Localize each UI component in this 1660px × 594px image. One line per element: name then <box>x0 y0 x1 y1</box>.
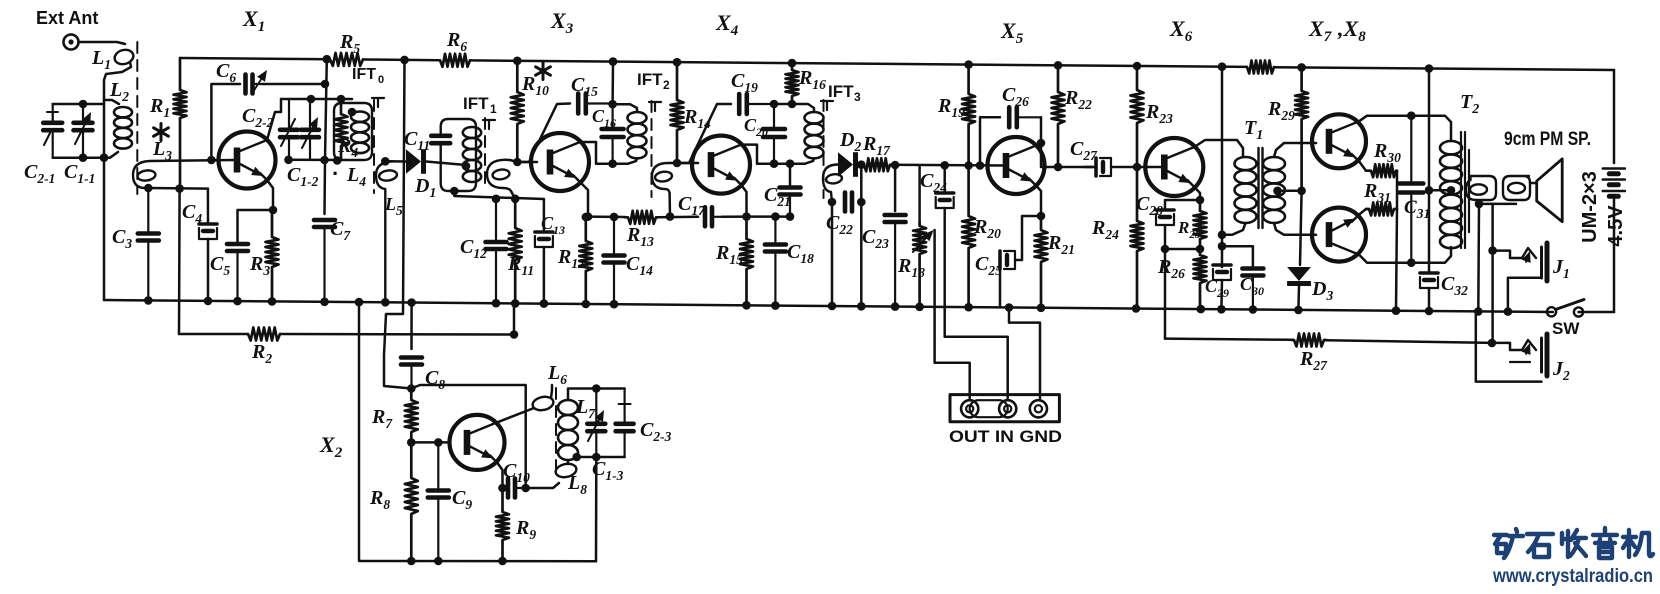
wire top rail segment R6 to R28 <box>470 60 1247 67</box>
junction C19 C20 <box>770 100 779 109</box>
transistor X2 (oscillator) <box>450 415 505 470</box>
wire C19 out to IFT3 primary top <box>774 103 793 106</box>
svg-text:R4: R4 <box>337 135 358 160</box>
wire rail feed through tank bottom to C7 <box>325 59 327 214</box>
svg-text:L4: L4 <box>346 164 366 189</box>
junction R8 at X2 bottom wire <box>407 557 416 566</box>
junction C32 at ground rail <box>1425 307 1434 316</box>
wire L2 top arc <box>104 100 119 104</box>
T2 core lines <box>1461 132 1469 248</box>
svg-text:C15: C15 <box>571 74 598 99</box>
junction X3 base node <box>513 158 522 167</box>
dashed core line IFT3 <box>823 100 825 198</box>
wire C31 bottom to T2 primary bottom <box>1411 247 1451 263</box>
svg-text:C17: C17 <box>678 193 706 218</box>
resistor R23 <box>1131 66 1144 167</box>
junction C6 tap on X1 base wire <box>207 156 216 165</box>
inductor L1 loop <box>113 48 135 66</box>
wire C31 top to T2 primary top <box>1411 116 1451 141</box>
junction C8 R7 node <box>407 384 416 393</box>
wire C6 to B- feed line <box>262 83 325 86</box>
junction X6 emitter node <box>1196 196 1205 205</box>
wire D3 to ground rail <box>1297 286 1300 310</box>
capacitor C22 <box>845 193 852 212</box>
svg-text:D2: D2 <box>839 129 861 154</box>
junction X4 emitter node <box>742 212 751 221</box>
trimmer slash C2-2 <box>281 119 295 146</box>
junction C21 bottom at emitter wire <box>786 212 795 221</box>
wire C30 branch <box>1222 246 1253 267</box>
svg-text:Ext Ant: Ext Ant <box>36 8 98 28</box>
svg-text:R16: R16 <box>798 67 826 92</box>
junction IFT1 primary tap <box>462 162 471 171</box>
wire IFT1 secondary to X3 base <box>505 160 537 162</box>
svg-text:R1: R1 <box>149 95 170 120</box>
dashed core line X2 oscillator transformer <box>555 388 557 471</box>
junction R24 ground <box>1132 304 1141 313</box>
junction L7 tank bottom left <box>572 453 581 462</box>
wire voice coil tap down to J1 and J2 <box>1491 204 1494 343</box>
resistor R19 <box>962 65 975 166</box>
wire X4 collector elbow <box>741 145 790 164</box>
wire C10 node to L8 <box>526 483 559 488</box>
svg-text:X4: X4 <box>715 10 739 39</box>
wire D2 output down to ground rail <box>860 165 863 307</box>
wire battery positive from top rail <box>1613 70 1616 163</box>
junction C31 top <box>1407 111 1416 120</box>
pin GND <box>1030 400 1047 417</box>
svg-text:C20: C20 <box>744 115 768 139</box>
resistor R4 <box>335 103 348 160</box>
svg-text:C32: C32 <box>1441 273 1468 298</box>
arrow of C1-2 <box>302 127 313 148</box>
svg-text:R8: R8 <box>369 487 390 512</box>
junction R17 output <box>891 161 900 170</box>
pin IN <box>999 400 1016 417</box>
svg-text:C1-2: C1-2 <box>287 164 319 189</box>
svg-text:J1: J1 <box>1552 256 1570 281</box>
wire C27 left lead <box>1085 166 1096 169</box>
junction R12 ground <box>582 300 591 309</box>
junction tank top at right vertical <box>592 384 601 393</box>
junction C22 right <box>857 198 866 207</box>
IFT3 primary coil <box>805 112 824 158</box>
IFT1 secondary loop staple <box>487 160 512 192</box>
svg-text:C2-2: C2-2 <box>242 105 274 130</box>
wire IFT2 primary bottom to collector node <box>613 158 637 163</box>
wire emitter node to C25 <box>1015 216 1041 260</box>
svg-text:C23: C23 <box>862 226 889 251</box>
wire X3 collector elbow <box>580 142 613 164</box>
junction C4 ground <box>204 297 213 306</box>
junction C22 ground <box>828 302 837 311</box>
oscillator coil L7 <box>558 400 578 460</box>
trimmer capacitor C2-3 <box>616 389 634 458</box>
capacitor C20 <box>763 104 785 164</box>
svg-text:OUT IN GND: OUT IN GND <box>949 427 1062 446</box>
transistor X6 (driver) <box>1145 138 1203 196</box>
wire J2 top contact <box>1492 343 1522 350</box>
junction R2 to ground drop <box>510 330 519 339</box>
capacitor C5 <box>227 244 248 301</box>
junction at ground rail <box>857 302 866 311</box>
coupling loop L5 staple <box>376 161 393 302</box>
T1 primary coil <box>1235 157 1257 223</box>
wire R27 line <box>1165 339 1292 340</box>
junction C7 feed <box>320 156 329 165</box>
capacitor C6 wire from base <box>211 84 240 160</box>
electrolytic capacitor C24 <box>936 193 954 208</box>
junction L5 ground <box>381 298 390 307</box>
svg-text:R10: R10 <box>521 73 549 98</box>
svg-text:C26: C26 <box>1002 84 1029 109</box>
svg-text:R20: R20 <box>973 216 1001 241</box>
resistor R26 <box>1194 249 1207 309</box>
wire R27 line right segment to J2 <box>1326 340 1492 343</box>
junction C9 at X2 bottom wire <box>434 557 443 566</box>
junction C5 ground <box>233 297 242 306</box>
junction tap wire at feed <box>1425 186 1434 195</box>
wire X7 collector to T2 primary top <box>1359 116 1411 122</box>
junction IFT2 secondary at emitter wire <box>666 212 675 221</box>
trimmer mark C2-3 <box>619 403 631 405</box>
wire T2 secondary return to ground rail <box>1477 204 1480 312</box>
junction R18 ground <box>915 303 924 312</box>
T1 secondary coil <box>1263 157 1285 223</box>
wire drop from ground rail to R2 line <box>513 303 516 334</box>
svg-text:C24: C24 <box>920 170 947 195</box>
wire X8 emitter to R31 <box>1359 209 1366 215</box>
resistor R16 <box>786 63 799 104</box>
wire antenna to L1 <box>79 42 126 44</box>
svg-text:D1: D1 <box>414 175 436 200</box>
asterisk mark near R1 <box>154 124 169 141</box>
wire B- feed vertical from top rail to C29 <box>1221 67 1224 267</box>
wire J2 sleeve to ground rail <box>1476 311 1542 381</box>
T2 secondary loop turn <box>1470 184 1487 194</box>
junction R10 at top rail <box>513 57 522 66</box>
junction IFT1 box bottom <box>450 187 459 196</box>
junction speaker wire <box>1475 200 1484 209</box>
resistor R14 (bias) <box>671 62 684 163</box>
electrolytic capacitor C13 <box>535 232 553 247</box>
wire X2 emitter down <box>497 462 503 488</box>
svg-text:IFT: IFT <box>352 66 376 83</box>
junction X1 emitter node <box>269 206 278 215</box>
variable capacitor C6 <box>246 75 263 94</box>
svg-text:R2: R2 <box>251 341 272 366</box>
wire X2 base <box>411 441 449 444</box>
capacitor C19 <box>739 94 774 114</box>
oscillator tank bottom wire <box>289 159 346 162</box>
svg-text:UM-2×3: UM-2×3 <box>1579 171 1601 243</box>
wire C8 branch from ground rail <box>410 303 413 350</box>
capacitor C12 <box>486 199 507 303</box>
wire emitter network bottom <box>1165 248 1200 251</box>
wire T2 center tap to B- feed <box>1429 189 1451 192</box>
wire top supply rail left segment <box>181 58 330 59</box>
svg-text:C3: C3 <box>112 226 132 251</box>
svg-text:3: 3 <box>854 90 861 104</box>
svg-text:C8: C8 <box>425 367 445 392</box>
jack J2 contact bars <box>1540 338 1543 372</box>
svg-text:C11: C11 <box>404 128 430 153</box>
svg-text:R17: R17 <box>862 133 891 158</box>
wire B- feed vertical to C32 <box>1428 69 1431 273</box>
variable capacitor C1-1 <box>74 104 93 158</box>
svg-text:X5: X5 <box>1000 18 1024 47</box>
wire X4 emitter down <box>741 185 747 217</box>
arrow of C1-1 <box>75 122 86 144</box>
resistor R18 (volume) <box>913 222 926 307</box>
transistor X5 (audio preamp) <box>988 137 1045 194</box>
junction T2 primary center tap <box>1447 186 1456 195</box>
volume control R18 top elbow <box>918 165 921 222</box>
capacitor C9 <box>428 442 449 561</box>
svg-text:IFT: IFT <box>637 70 663 89</box>
junction tank bottom at right vertical <box>592 453 601 462</box>
resistor R22 <box>1052 65 1065 167</box>
trimmer T mark IFT2 <box>649 102 661 111</box>
IFT1 primary coil <box>463 127 481 182</box>
wire C15 out to IFT2 primary top <box>613 104 637 112</box>
junction R16 feed <box>788 100 797 109</box>
wire bottom ground rail <box>104 300 1553 312</box>
junction T1 feed at top rail <box>1218 62 1227 71</box>
junction C3 tap <box>144 184 153 193</box>
junction C22 left <box>828 198 837 207</box>
junction C1-2 top <box>307 95 316 104</box>
junction L2 bottom <box>100 153 109 162</box>
junction C26 left at base wire <box>976 161 985 170</box>
electrolytic capacitor C28 <box>1156 210 1174 225</box>
wire speaker link bottom <box>1479 203 1516 206</box>
svg-text:C2-3: C2-3 <box>640 419 672 444</box>
svg-text:R24: R24 <box>1091 217 1119 242</box>
wire tank bottom down to X2 bottom wire <box>595 457 598 561</box>
junction C28 bottom <box>1161 245 1170 254</box>
coupling loop L3 staple <box>133 161 150 188</box>
junction C30 ground <box>1249 305 1258 314</box>
junction R25 bottom <box>1196 245 1205 254</box>
trimmer T mark IFT3 <box>821 101 833 110</box>
wire D2 to R17 <box>858 163 864 166</box>
wire L2 bottom arc to box <box>104 152 118 158</box>
svg-text:R7: R7 <box>371 406 393 431</box>
wire IFT2 secondary bottom down to R13 wire <box>668 193 671 217</box>
resistor R13 <box>625 211 658 224</box>
wire C24 top <box>943 165 946 193</box>
wire C4 to ground rail <box>207 239 210 301</box>
watermark glyph yin (sound) <box>1593 528 1617 558</box>
junction L5 top <box>381 157 390 166</box>
svg-text:IFT: IFT <box>828 82 854 101</box>
wire C29 to ground rail <box>1220 280 1223 309</box>
junction X3 collector node <box>608 159 617 168</box>
wire X7 emitter to R30 <box>1359 161 1366 170</box>
svg-text:C19: C19 <box>731 70 758 95</box>
svg-text:R9: R9 <box>515 517 536 542</box>
wire X4 neutralizing branch to C19 <box>677 104 731 163</box>
wire R1 line continues down to R2 line <box>178 189 181 334</box>
resistor R7 <box>405 389 418 443</box>
wire emitter node to C5 <box>238 210 274 242</box>
voice coil loop turn <box>1508 183 1525 193</box>
dashed core line oscillator transformer <box>373 100 375 193</box>
capacitor C21 <box>780 188 801 217</box>
junction emitter return at ground rail <box>1392 306 1401 315</box>
arrow of C1-3 <box>588 420 599 441</box>
electrolytic capacitor C25 <box>1000 251 1015 269</box>
junction C14 ground <box>610 300 619 309</box>
junction X5 emitter node <box>1037 212 1046 221</box>
junction C23 ground <box>891 302 900 311</box>
junction C29 C30 node <box>1218 242 1227 251</box>
IFT3 secondary loop staple <box>823 165 838 203</box>
voice coil loop staple <box>1503 176 1530 200</box>
svg-text:C22: C22 <box>826 212 853 237</box>
wire R17 output down through C23 to ground <box>894 165 897 211</box>
wire X3 emitter down <box>580 182 588 217</box>
wire T1 center tap to R29 <box>1278 190 1302 193</box>
wire R29 line down to D3 <box>1300 191 1302 265</box>
svg-text:R11: R11 <box>507 253 534 278</box>
svg-text:X7: X7 <box>1308 16 1332 45</box>
wire X1 emitter down <box>267 180 273 210</box>
transistor X7 (output) <box>1312 114 1366 168</box>
wire emitter resistors common to ground rail <box>1396 171 1399 209</box>
resistor R10 (bias) <box>511 61 524 162</box>
svg-text:SW: SW <box>1552 319 1580 338</box>
wire C4 elbow <box>207 189 210 224</box>
capacitor C8 <box>401 358 422 389</box>
capacitor C7 <box>314 220 335 302</box>
inductor L5 loop <box>378 169 397 181</box>
speaker horn <box>1537 159 1563 222</box>
svg-text:R26: R26 <box>1157 256 1185 281</box>
junction C1-1 bottom <box>79 153 88 162</box>
capacitor C15 <box>578 94 612 114</box>
junction R4 bottom <box>333 156 342 165</box>
svg-text:R15: R15 <box>715 242 743 267</box>
junction J2 tap at R27 line <box>1488 339 1497 348</box>
wire voice coil to horn <box>1530 182 1537 185</box>
junction R4 top <box>337 95 346 104</box>
trimmer capacitor C2-1 <box>43 104 62 158</box>
wire C22 left to ground rail <box>831 202 834 306</box>
svg-text:www.crystalradio.cn: www.crystalradio.cn <box>1492 565 1653 587</box>
svg-text:C7: C7 <box>330 218 351 243</box>
resistor R27 <box>1292 334 1326 347</box>
wire C28 bottom <box>1164 225 1167 249</box>
junction R21 ground <box>1037 304 1046 313</box>
diode D3 <box>1287 267 1311 286</box>
trimmer mark C2-1 <box>47 112 58 119</box>
wire R2 line right segment <box>280 333 514 336</box>
resistor R17 <box>864 158 890 171</box>
junction C13 ground <box>540 299 549 308</box>
battery UM-2x3 cells <box>1603 169 1625 197</box>
svg-text:·: · <box>332 161 339 186</box>
junction L4 top tap <box>348 108 357 117</box>
capacitor C18 <box>765 217 786 306</box>
diode D2 <box>838 152 858 177</box>
wire X2 collector to L6 <box>497 408 534 422</box>
IFT3 secondary loop <box>825 173 842 184</box>
wire C13 branch <box>543 199 546 230</box>
wire X1 collector to oscillator tank top <box>267 99 281 140</box>
diode D1 <box>406 149 426 174</box>
capacitor C23 <box>885 215 906 307</box>
resistor R9 <box>496 488 509 561</box>
wire C21 branch <box>789 164 792 186</box>
transistor X8 (output) <box>1312 208 1366 262</box>
junction C12 ground <box>492 299 501 308</box>
svg-text:T1: T1 <box>1244 117 1263 143</box>
svg-text:,X8: ,X8 <box>1337 16 1366 45</box>
svg-text:9cm PM SP.: 9cm PM SP. <box>1504 129 1591 150</box>
transistor X3 (IF amplifier) <box>531 133 589 191</box>
junction C3 ground <box>144 296 153 305</box>
junction R1 bottom <box>175 184 184 193</box>
junction T2 feed at top rail <box>1425 64 1434 73</box>
wire L1 down to L2 top <box>104 62 131 100</box>
transistor X1 (converter) <box>219 132 276 189</box>
svg-text:L1: L1 <box>91 47 111 72</box>
antenna coil L2 <box>114 107 132 149</box>
wire tank bottom wire <box>577 456 625 459</box>
resistor R25 <box>1194 200 1207 249</box>
junction R14 at top rail <box>673 58 682 67</box>
resistor R2 <box>248 328 280 341</box>
svg-text:4.5V: 4.5V <box>1605 205 1627 247</box>
wire C28 node down to R27 line <box>1164 249 1167 339</box>
junction C14 top <box>610 213 619 222</box>
watermark glyph shou (receive) <box>1562 530 1586 557</box>
svg-text:R30: R30 <box>1373 140 1401 165</box>
wire antenna vertical down to ground rail <box>103 100 106 300</box>
junction C29 ground <box>1217 305 1226 314</box>
wire X5 collector <box>1036 143 1092 167</box>
svg-text:C28: C28 <box>1136 193 1163 218</box>
wire IFT1 bottom to C12 R11 <box>454 191 544 199</box>
trimmer capacitor C2-2 <box>280 99 298 160</box>
svg-text:C31: C31 <box>1404 197 1430 221</box>
wire X2 cell left vertical and bottom wire <box>359 302 596 561</box>
wire B- feed to X2 from top rail <box>384 60 411 389</box>
wire C32 to ground rail <box>1428 288 1431 311</box>
T2 secondary loop staple <box>1466 176 1496 200</box>
junction speaker return at ground rail <box>1474 307 1483 316</box>
svg-text:C25: C25 <box>975 253 1002 278</box>
junction R15 ground <box>742 301 751 310</box>
capacitor C10 <box>503 479 525 498</box>
resistor R5 (in top rail) <box>330 53 363 66</box>
pin OUT <box>961 400 978 417</box>
wire R13 to C17 <box>658 216 698 219</box>
junction C6 at feed line <box>321 80 330 89</box>
junction C1-1 top <box>79 100 88 109</box>
svg-text:L5: L5 <box>384 194 403 218</box>
svg-text:2: 2 <box>663 78 670 92</box>
junction R9 at X2 bottom wire <box>498 557 507 566</box>
wire C27 to X6 base <box>1111 166 1164 169</box>
oscillator tank top wire <box>281 98 352 101</box>
junction R29 bottom at tap wire <box>1297 187 1306 196</box>
wire R16 node to IFT3 primary top <box>792 104 814 112</box>
link between OUT and IN pins <box>970 400 1008 417</box>
capacitor C14 <box>604 217 625 304</box>
